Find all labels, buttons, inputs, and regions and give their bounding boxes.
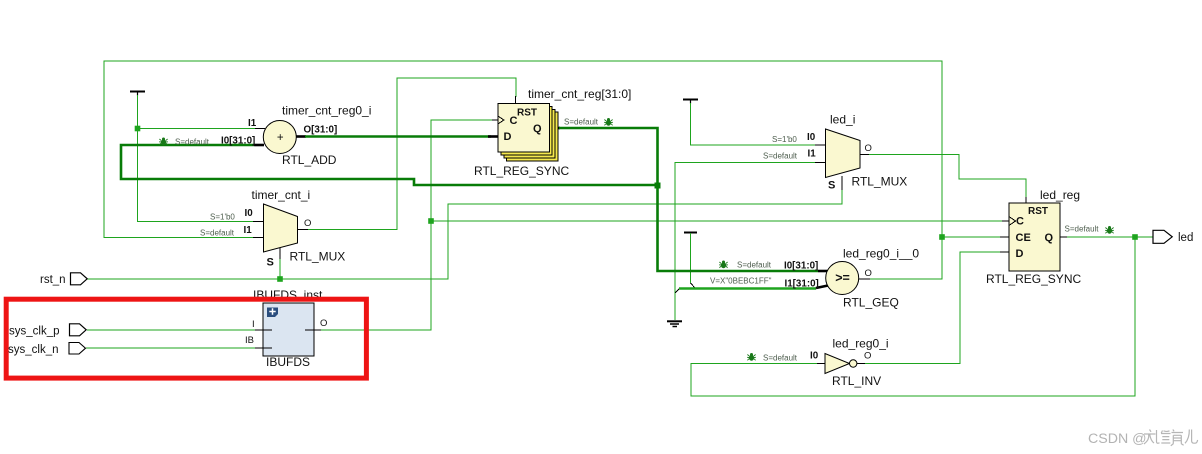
watermark CSDN bbox=[1088, 430, 1198, 448]
labels led_i bbox=[763, 113, 907, 192]
svg-text:O: O bbox=[865, 143, 872, 154]
svg-text:RTL_REG_SYNC: RTL_REG_SYNC bbox=[474, 164, 569, 178]
svg-text:S=default: S=default bbox=[175, 138, 210, 147]
svg-text:RTL_GEQ: RTL_GEQ bbox=[843, 296, 899, 310]
junction rst_n to timer_cnt_i S bbox=[277, 276, 283, 282]
port sys_clk_p bbox=[70, 324, 87, 336]
svg-text:Q: Q bbox=[1045, 232, 1054, 244]
pin IBUFDS I bbox=[255, 329, 272, 331]
svg-text:+: + bbox=[277, 132, 284, 144]
net timer reset: timer_cnt_i O to timer_cnt_reg RST bbox=[298, 78, 517, 230]
net sys_clk_p bbox=[87, 329, 255, 331]
svg-text:O: O bbox=[304, 218, 311, 229]
svg-text:D: D bbox=[504, 131, 512, 143]
port rst_n bbox=[71, 273, 88, 285]
net inverter O to led_reg D bbox=[857, 252, 1009, 364]
bus timer_cnt_reg Q feedback and to GEQ I0 bbox=[121, 128, 828, 271]
svg-text:led_reg0_i: led_reg0_i bbox=[833, 337, 889, 351]
attr S=default on adder I0 bbox=[159, 138, 210, 147]
svg-text:S=default: S=default bbox=[564, 118, 599, 127]
svg-text:S=default: S=default bbox=[200, 229, 235, 238]
labels IBUFDS bbox=[245, 318, 327, 369]
svg-text:I1: I1 bbox=[244, 225, 253, 236]
net geq O bbox=[859, 278, 871, 280]
svg-text:rst_n: rst_n bbox=[40, 274, 66, 286]
inverter RTL_INV led_reg0_i bbox=[825, 354, 857, 374]
svg-text:I0: I0 bbox=[810, 351, 819, 362]
op: adder RTL_ADD timer_cnt_reg0_i bbox=[263, 121, 296, 154]
pin adder I1 bbox=[255, 128, 265, 130]
svg-text:timer_cnt_reg[31:0]: timer_cnt_reg[31:0] bbox=[528, 87, 631, 101]
pin timer_cnt_i I0 bbox=[253, 221, 264, 223]
svg-text:timer_cnt_i: timer_cnt_i bbox=[252, 188, 311, 202]
svg-text:S: S bbox=[267, 257, 274, 269]
reg: RTL_REG_SYNC led_reg bbox=[1009, 203, 1060, 271]
svg-text:led_i: led_i bbox=[830, 113, 855, 127]
svg-text:S=1'b0: S=1'b0 bbox=[210, 213, 235, 222]
junction geq_out to CE bbox=[939, 234, 945, 240]
svg-text:C: C bbox=[510, 115, 518, 127]
svg-text:O: O bbox=[864, 351, 871, 362]
svg-text:>=: >= bbox=[835, 271, 850, 285]
svg-text:RST: RST bbox=[1028, 206, 1048, 217]
op: RTL_GEQ led_reg0_i__0 bbox=[826, 262, 859, 295]
svg-text:Q: Q bbox=[533, 123, 542, 135]
junction led net to inverter bbox=[1132, 234, 1138, 240]
pin IBUFDS O bbox=[305, 329, 321, 331]
svg-text:D: D bbox=[1016, 248, 1024, 260]
svg-text:RTL_MUX: RTL_MUX bbox=[290, 250, 346, 264]
svg-text:I0[31:0]: I0[31:0] bbox=[221, 136, 255, 147]
net led output and feedback to RTL_INV bbox=[691, 237, 1153, 396]
labels led_reg0_i INV bbox=[747, 337, 888, 389]
constant V=X"0BEBC1FF" net to GEQ I1 bbox=[679, 233, 828, 289]
red highlight rectangle bbox=[6, 299, 366, 378]
power VCC const for led_i I0 bbox=[683, 100, 826, 146]
labels led_reg bbox=[986, 188, 1081, 286]
svg-text:RST: RST bbox=[517, 108, 537, 119]
buffer IBUFDS IBUFDS_inst bbox=[263, 303, 314, 356]
svg-text:O[31:0]: O[31:0] bbox=[304, 125, 338, 136]
svg-text:RTL_INV: RTL_INV bbox=[832, 374, 881, 388]
svg-text:S=1'b0: S=1'b0 bbox=[772, 135, 797, 144]
svg-text:CSDN @: CSDN @ bbox=[1088, 431, 1147, 447]
svg-text:I0: I0 bbox=[807, 132, 816, 143]
svg-text:C: C bbox=[1016, 216, 1024, 228]
svg-text:IB: IB bbox=[245, 335, 254, 346]
bus adder O to timer_cnt_reg D bbox=[296, 135, 498, 138]
svg-text:O: O bbox=[865, 268, 872, 279]
svg-text:CE: CE bbox=[1016, 232, 1031, 244]
net geq_out big loop (timer_cnt_i I1 / led_reg CE) bbox=[104, 61, 1000, 279]
svg-text:I1[31:0]: I1[31:0] bbox=[785, 279, 819, 290]
junction const net bbox=[135, 126, 141, 132]
reg: RTL_REG_SYNC timer_cnt_reg[31:0] stacked bbox=[498, 104, 558, 161]
port led (output) bbox=[1153, 230, 1172, 243]
pin led_reg CE bbox=[1000, 236, 1009, 238]
svg-text:RTL_ADD: RTL_ADD bbox=[282, 153, 337, 167]
net led_i I1 tied to ground bbox=[675, 163, 826, 321]
svg-text:led: led bbox=[1178, 232, 1193, 244]
mux: RTL_MUX led_i bbox=[826, 129, 861, 178]
net sys_clk_n bbox=[86, 347, 255, 349]
attr S=default on reg Q bbox=[564, 118, 613, 127]
labels led_reg0_i__0 GEQ bbox=[710, 247, 919, 310]
svg-text:sys_clk_p: sys_clk_p bbox=[9, 326, 60, 338]
svg-text:RTL_MUX: RTL_MUX bbox=[852, 175, 908, 189]
svg-text:S=default: S=default bbox=[1065, 225, 1100, 234]
svg-text:V=X"0BEBC1FF": V=X"0BEBC1FF" bbox=[710, 277, 772, 286]
svg-text:timer_cnt_reg0_i: timer_cnt_reg0_i bbox=[282, 104, 371, 118]
junction clock branch bbox=[428, 218, 434, 224]
svg-text:I1: I1 bbox=[808, 149, 817, 160]
pin timer_cnt_reg C bbox=[492, 119, 498, 121]
ground bbox=[667, 321, 682, 326]
attr S=default on led_reg Q bbox=[1065, 225, 1114, 234]
net rst_n bbox=[87, 176, 842, 279]
svg-text:S: S bbox=[828, 180, 835, 192]
svg-text:I0[31:0]: I0[31:0] bbox=[784, 261, 818, 272]
svg-text:sys_clk_n: sys_clk_n bbox=[8, 344, 59, 356]
pin IBUFDS IB bbox=[255, 347, 272, 349]
wire clock net from IBUFDS O bbox=[321, 120, 1009, 330]
svg-text:S=default: S=default bbox=[737, 261, 772, 270]
power VCC const for adder I1 and timer_cnt_i I0 bbox=[130, 92, 255, 222]
net led_i O to led_reg RST bbox=[860, 155, 1026, 205]
svg-text:I: I bbox=[252, 319, 255, 330]
svg-text:RTL_REG_SYNC: RTL_REG_SYNC bbox=[986, 272, 1081, 286]
svg-text:IBUFDS: IBUFDS bbox=[266, 355, 310, 369]
port sys_clk_n bbox=[69, 343, 86, 355]
svg-text:O: O bbox=[320, 318, 327, 329]
svg-text:led_reg: led_reg bbox=[1040, 188, 1080, 202]
svg-text:I0: I0 bbox=[245, 208, 254, 219]
labels adder timer_cnt_reg0_i bbox=[221, 104, 371, 168]
svg-text:led_reg0_i__0: led_reg0_i__0 bbox=[843, 247, 919, 261]
svg-text:S=default: S=default bbox=[763, 152, 798, 161]
mux: RTL_MUX timer_cnt_i bbox=[264, 204, 298, 252]
junction bus feedback bbox=[655, 183, 661, 189]
labels timer_cnt_i bbox=[200, 188, 345, 269]
svg-text:I1: I1 bbox=[248, 118, 257, 129]
svg-text:S=default: S=default bbox=[763, 354, 798, 363]
labels timer_cnt_reg bbox=[474, 87, 631, 178]
